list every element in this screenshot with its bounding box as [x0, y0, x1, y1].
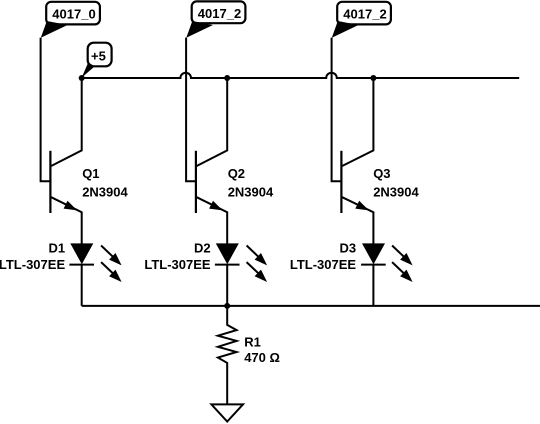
node junction dot Q2 collector on rail — [224, 75, 230, 81]
wire base feed Q2 — [186, 38, 196, 182]
svg-text:4017_2: 4017_2 — [198, 6, 241, 21]
svg-text:2N3904: 2N3904 — [373, 184, 419, 199]
svg-text:LTL-307EE: LTL-307EE — [0, 257, 65, 272]
svg-text:4017_2: 4017_2 — [343, 7, 386, 22]
LED D3 — [361, 243, 413, 306]
svg-text:LTL-307EE: LTL-307EE — [290, 257, 357, 272]
svg-text:R1: R1 — [244, 335, 261, 350]
wire bottom rail — [82, 305, 540, 307]
svg-text:Q1: Q1 — [82, 166, 99, 181]
resistor R1 — [218, 306, 237, 405]
transistor Q3 — [341, 78, 373, 244]
svg-text:D1: D1 — [48, 240, 65, 255]
svg-text:470 Ω: 470 Ω — [244, 350, 280, 365]
wire base feed Q1 — [41, 38, 51, 182]
node junction dot R1 on bottom rail — [224, 303, 230, 309]
wire top rail +5 (with hops over section 2 and 3 base wires) — [82, 73, 520, 78]
svg-text:+5: +5 — [91, 48, 106, 63]
svg-text:D3: D3 — [339, 240, 356, 255]
svg-text:Q3: Q3 — [373, 166, 390, 181]
svg-text:LTL-307EE: LTL-307EE — [144, 257, 211, 272]
node junction dot Q3 collector on rail — [370, 75, 376, 81]
port flag 4017_0 — [41, 2, 100, 38]
LED D1 — [69, 243, 121, 306]
port flag +5 — [82, 43, 112, 78]
wire base feed Q3 — [332, 38, 342, 182]
port flag 4017_2 (third) — [332, 2, 391, 38]
ground — [211, 404, 243, 421]
port flag 4017_2 (second) — [186, 1, 245, 37]
transistor Q1 — [50, 78, 81, 244]
node junction dot +5 rail / Q1 collector — [79, 75, 85, 81]
svg-text:2N3904: 2N3904 — [82, 184, 128, 199]
LED D2 — [215, 243, 267, 306]
svg-text:4017_0: 4017_0 — [52, 7, 95, 22]
svg-text:D2: D2 — [194, 240, 211, 255]
svg-text:Q2: Q2 — [228, 166, 245, 181]
svg-text:2N3904: 2N3904 — [228, 184, 274, 199]
transistor Q2 — [196, 78, 227, 244]
